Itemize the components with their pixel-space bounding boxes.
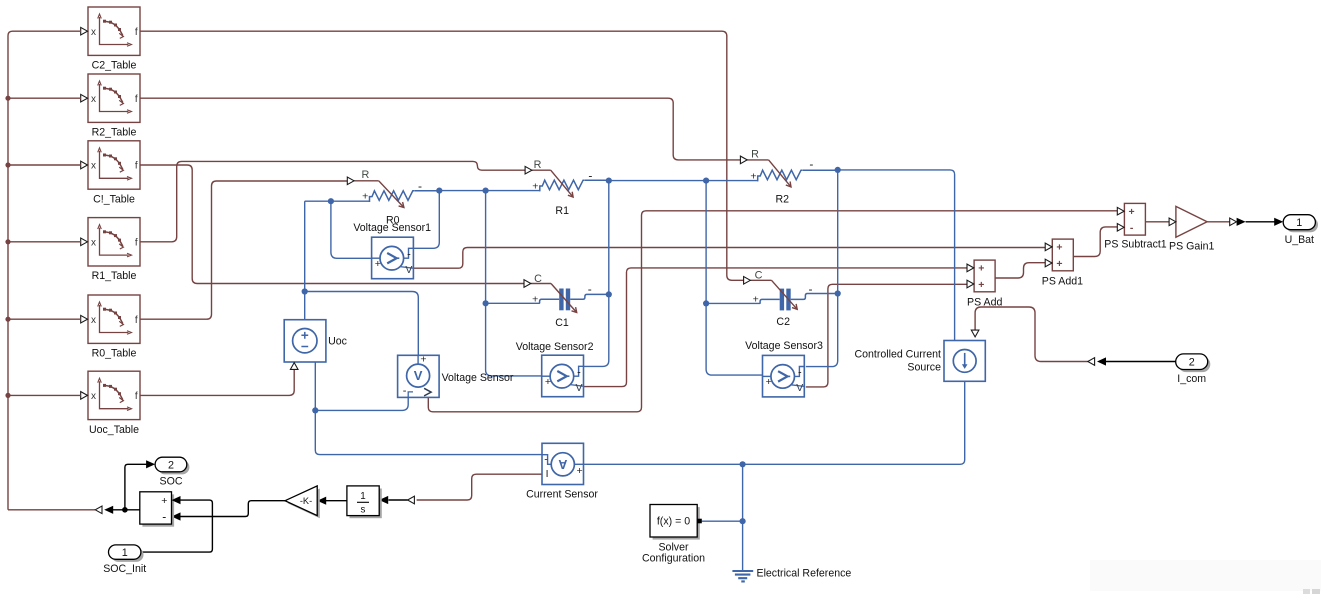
svg-text:f: f	[135, 27, 138, 38]
voltage sensor U2 Voltage Sensor2	[542, 355, 584, 397]
label Current Sensor	[526, 489, 598, 501]
svg-text:+: +	[1056, 258, 1062, 270]
svg-text:+: +	[161, 495, 167, 507]
R input port marker R0	[347, 177, 354, 185]
current sensor Current Sensor	[542, 443, 584, 484]
svg-text:+: +	[375, 258, 381, 270]
svg-text:x: x	[91, 237, 96, 248]
svg-text:-K-: -K-	[300, 496, 312, 506]
svg-text:I_com: I_com	[1177, 373, 1206, 385]
svg-text:PS Add: PS Add	[967, 297, 1002, 309]
label + at C2	[753, 293, 759, 305]
svg-text:+: +	[420, 354, 426, 366]
label C!_Table	[93, 193, 135, 205]
svg-text:V: V	[405, 264, 412, 276]
controlled current source	[944, 341, 985, 382]
wire Uoc+ branch to Voltage Sensor plus	[305, 292, 419, 356]
label C2	[776, 316, 790, 328]
wire SOC_Init to sum plus	[141, 496, 213, 552]
converter PS to Simulink at U_Bat	[1230, 218, 1246, 226]
wire Current Sensor to Controlled Current Source bottom	[584, 381, 965, 464]
junction dots electrical	[302, 167, 841, 525]
wire Voltage Sensor2 output to PS Add input 1	[584, 268, 968, 387]
svg-text:-: -	[809, 157, 813, 171]
wire I_com to converter	[1097, 357, 1176, 365]
svg-text:R0_Table: R0_Table	[92, 348, 137, 360]
integrator block 1/s	[347, 486, 382, 518]
svg-text:+: +	[1056, 242, 1062, 254]
label R at R1	[534, 159, 542, 171]
svg-text:f: f	[135, 94, 138, 105]
control input marker CCS	[971, 330, 979, 337]
svg-text:C2_Table: C2_Table	[92, 60, 137, 72]
label + at R1	[532, 181, 538, 193]
solver configuration block	[650, 505, 702, 540]
output port 2 SOC	[155, 457, 189, 474]
wire C2_Table output to C2 C input	[140, 31, 744, 280]
svg-text:-: -	[403, 385, 407, 397]
wire C!_Table output to C1 C input	[140, 165, 524, 284]
wire I_com converter to Controlled Current Source control input	[975, 307, 1088, 362]
wire sum to SOC port	[125, 460, 155, 510]
svg-text:Uoc_Table: Uoc_Table	[89, 424, 139, 436]
label Controlled Current Source line2	[907, 362, 941, 374]
svg-text:+: +	[532, 294, 538, 306]
label - at R1	[588, 169, 592, 183]
controlled voltage source Uoc	[284, 320, 326, 362]
wire Voltage Sensor3 output to PS Add input 2	[806, 284, 968, 387]
svg-text:C!_Table: C!_Table	[93, 193, 135, 205]
svg-text:2: 2	[1189, 357, 1195, 369]
svg-text:+: +	[750, 170, 756, 182]
wire PS Gain1 output to converter	[1207, 221, 1230, 223]
label R at R2	[751, 149, 759, 161]
svg-text:x: x	[91, 391, 96, 402]
label Voltage Sensor3	[745, 340, 823, 352]
label PS Subtract1	[1104, 238, 1167, 250]
svg-text:+: +	[753, 293, 759, 305]
converter Simulink to PS at I_com	[1088, 358, 1095, 366]
svg-text:PS Add1: PS Add1	[1042, 276, 1083, 288]
faint artifact band	[1090, 560, 1321, 594]
svg-text:SOC: SOC	[160, 475, 183, 487]
label Uoc_Table	[89, 424, 139, 436]
label SOC_Init	[103, 563, 146, 575]
wire Voltage Sensor output to PS Subtract1 plus input	[428, 211, 1118, 412]
svg-text:R: R	[361, 169, 369, 181]
label R2	[776, 194, 790, 206]
label Electrical Reference	[757, 567, 852, 579]
lookup table C2_Table	[81, 7, 140, 55]
label - at R0	[418, 179, 422, 193]
resistor R1 (variable)	[532, 170, 609, 197]
svg-text:s: s	[361, 504, 366, 515]
label + at R0	[362, 191, 368, 203]
converter PS to Simulink at integrator	[379, 496, 414, 504]
svg-text:R2_Table: R2_Table	[92, 127, 137, 139]
wire PS Add1 output to PS Subtract1 minus input	[1073, 227, 1118, 257]
C input port marker C2	[744, 277, 751, 285]
svg-text:-: -	[1130, 222, 1134, 234]
capacitor C1 (variable)	[531, 284, 609, 313]
PS Add block	[967, 260, 995, 292]
svg-text:SOC_Init: SOC_Init	[103, 563, 146, 575]
svg-text:V: V	[796, 382, 803, 394]
label - at R2	[809, 157, 813, 171]
wire node R0-/R1+	[439, 190, 540, 192]
ground electrical reference	[732, 571, 753, 581]
lookup table R1_Table	[81, 218, 140, 266]
wire PS Subtract1 output to PS Gain1 input	[1144, 221, 1169, 223]
svg-text:R: R	[534, 159, 542, 171]
svg-text:+: +	[766, 376, 772, 388]
svg-text:Controlled Current: Controlled Current	[854, 349, 941, 361]
svg-text:-: -	[798, 367, 802, 379]
svg-text:C: C	[534, 273, 542, 285]
wire gain to sum minus	[172, 501, 286, 521]
label - at C1	[588, 282, 592, 296]
label Voltage Sensor2	[516, 341, 594, 353]
R input port marker R1	[525, 166, 532, 174]
label C at C1	[534, 273, 542, 285]
wire Solver Configuration to node	[702, 520, 743, 522]
svg-text:+: +	[577, 465, 583, 477]
svg-text:x: x	[91, 315, 96, 326]
svg-text:-: -	[407, 248, 411, 260]
svg-text:1: 1	[1296, 217, 1302, 229]
svg-text:-: -	[418, 179, 422, 193]
svg-text:Solver: Solver	[658, 541, 688, 553]
svg-text:-: -	[588, 169, 592, 183]
resistor R0 (variable)	[354, 181, 439, 208]
wire to U_Bat port	[1246, 218, 1284, 226]
wire R2_Table output to R2 R input	[140, 98, 741, 160]
svg-text:Uoc: Uoc	[328, 336, 348, 348]
svg-text:-: -	[162, 509, 166, 523]
wire node to C2 plus	[706, 302, 759, 304]
label R0_Table	[92, 348, 137, 360]
input port 2 I_com	[1176, 354, 1211, 372]
svg-text:V: V	[575, 382, 582, 394]
svg-text:f: f	[135, 315, 138, 326]
svg-text:+: +	[1129, 206, 1135, 218]
wire R1_Table output to R1 R input	[140, 161, 525, 241]
svg-text:Configuration: Configuration	[642, 553, 705, 565]
label PS Add1	[1042, 276, 1083, 288]
svg-text:x: x	[91, 161, 96, 172]
label R at R0	[361, 169, 369, 181]
wire SOC feedback rail to table inputs	[5, 31, 95, 510]
label C at C2	[755, 269, 763, 281]
wire Voltage Sensor1 output to PS Add1 input 1	[413, 248, 1045, 269]
label Uoc	[328, 336, 348, 348]
wire R1-/R2+ down to C2+ and Voltage Sensor3 plus	[706, 181, 762, 376]
PS Gain1 block	[1169, 206, 1207, 237]
label R0 overlap Voltage Sensor1	[353, 222, 431, 234]
wire PS Add output to PS Add1 input 2	[995, 263, 1046, 278]
lookup table R0_Table	[81, 295, 140, 343]
svg-text:A: A	[558, 457, 567, 471]
wire Uoc minus down to Current Sensor	[315, 362, 542, 455]
wire Uoc minus branch to Voltage Sensor minus	[315, 397, 408, 410]
svg-text:+: +	[545, 376, 551, 388]
wire R2- down to C2- and Voltage Sensor3 minus	[806, 170, 838, 367]
svg-text:f(x) = 0: f(x) = 0	[657, 516, 690, 528]
wire node Uoc+ to R0 left	[305, 200, 370, 202]
wire Uoc top vertical	[304, 201, 306, 320]
label C1	[555, 317, 569, 329]
svg-text:f: f	[135, 237, 138, 248]
R input port marker R2	[740, 156, 747, 164]
label U_Bat	[1285, 234, 1314, 246]
label C2_Table	[92, 60, 137, 72]
svg-text:C1: C1	[555, 317, 569, 329]
label Voltage Sensor	[442, 372, 514, 384]
label + at C1	[532, 294, 538, 306]
svg-text:Current Sensor: Current Sensor	[526, 489, 598, 501]
svg-text:-: -	[809, 282, 813, 296]
voltage sensor U1 Voltage Sensor1	[372, 237, 414, 279]
label R2_Table	[92, 127, 137, 139]
svg-text:+: +	[978, 263, 984, 275]
wire sum output to converter	[104, 506, 140, 514]
label + at R2	[750, 170, 756, 182]
label R0	[386, 215, 400, 227]
wire node to C1 plus	[486, 302, 539, 304]
input port 1 SOC_Init	[109, 545, 144, 562]
lookup table C!_Table	[81, 141, 140, 189]
C input port marker C1	[524, 280, 531, 288]
svg-text:Voltage Sensor1: Voltage Sensor1	[353, 222, 431, 234]
svg-text:Voltage Sensor2: Voltage Sensor2	[516, 341, 594, 353]
svg-text:f: f	[135, 391, 138, 402]
label PS Gain1	[1169, 241, 1214, 253]
output port 1 U_Bat	[1283, 215, 1318, 233]
wire R0_Table output to R0 R input	[140, 181, 348, 319]
label - at C2	[809, 282, 813, 296]
svg-text:-: -	[588, 282, 592, 296]
svg-text:R1_Table: R1_Table	[92, 270, 137, 282]
svg-text:+: +	[532, 181, 538, 193]
label I_com	[1177, 373, 1206, 385]
label R1_Table	[92, 270, 137, 282]
svg-text:x: x	[91, 27, 96, 38]
svg-text:Voltage Sensor3: Voltage Sensor3	[745, 340, 823, 352]
PS Add1 block	[1045, 239, 1073, 271]
label SOC	[160, 475, 183, 487]
svg-text:2: 2	[168, 459, 174, 471]
svg-text:V: V	[414, 368, 423, 383]
control input marker Uoc	[290, 363, 298, 370]
lookup table R2_Table	[81, 74, 140, 122]
label PS Add	[967, 297, 1002, 309]
svg-text:+: +	[978, 279, 984, 291]
svg-text:Source: Source	[907, 362, 941, 374]
wire node R1-/R2+	[609, 180, 758, 182]
svg-text:PS Subtract1: PS Subtract1	[1104, 238, 1167, 250]
lookup table Uoc_Table	[81, 371, 140, 419]
voltage sensor U4 Voltage Sensor (Uoc)	[398, 354, 440, 398]
svg-text:Voltage Sensor: Voltage Sensor	[442, 372, 514, 384]
wire R1- down to C1- and Voltage Sensor2 minus	[584, 181, 609, 367]
resistor R2 (variable)	[747, 160, 838, 187]
wire R0-/R1+ down to C1+ and Voltage Sensor2 plus	[486, 191, 542, 376]
wire node to Electrical Reference	[742, 464, 744, 570]
PS Subtract1 block	[1117, 203, 1145, 235]
voltage sensor U3 Voltage Sensor3	[763, 355, 805, 397]
wire Uoc_Table output to Uoc control input	[140, 369, 294, 395]
converter Simulink to PS at SOC rail	[95, 506, 102, 514]
wire R0- to Voltage Sensor1 minus	[413, 191, 439, 249]
svg-text:C2: C2	[776, 316, 790, 328]
label Solver Configuration line2	[642, 553, 705, 565]
svg-text:U_Bat: U_Bat	[1285, 234, 1314, 246]
svg-text:+: +	[362, 191, 368, 203]
svg-text:1: 1	[122, 547, 128, 559]
svg-text:-: -	[577, 366, 581, 378]
svg-text:R1: R1	[555, 205, 569, 217]
svg-text:C: C	[755, 269, 763, 281]
svg-text:PS Gain1: PS Gain1	[1169, 241, 1214, 253]
svg-text:1: 1	[360, 491, 365, 502]
wire Current Sensor I output to integrator converter	[417, 474, 542, 500]
wire node Uoc+ branch to Voltage Sensor1 plus	[331, 201, 372, 258]
svg-text:f: f	[135, 161, 138, 172]
svg-text:x: x	[91, 94, 96, 105]
label Solver Configuration line1	[658, 541, 688, 553]
gain block -K-	[285, 486, 320, 518]
svg-text:-: -	[544, 454, 548, 466]
label R1	[555, 205, 569, 217]
svg-text:Electrical Reference: Electrical Reference	[757, 567, 852, 579]
sum block SOC	[140, 492, 174, 527]
wire integrator to gain	[317, 497, 347, 505]
svg-text:I: I	[546, 468, 549, 480]
label Controlled Current Source line1	[854, 349, 941, 361]
svg-text:R: R	[751, 149, 759, 161]
capacitor C2 (variable)	[750, 280, 837, 310]
svg-text:R2: R2	[776, 194, 790, 206]
wire node R2- to Controlled Current Source top	[838, 170, 955, 341]
